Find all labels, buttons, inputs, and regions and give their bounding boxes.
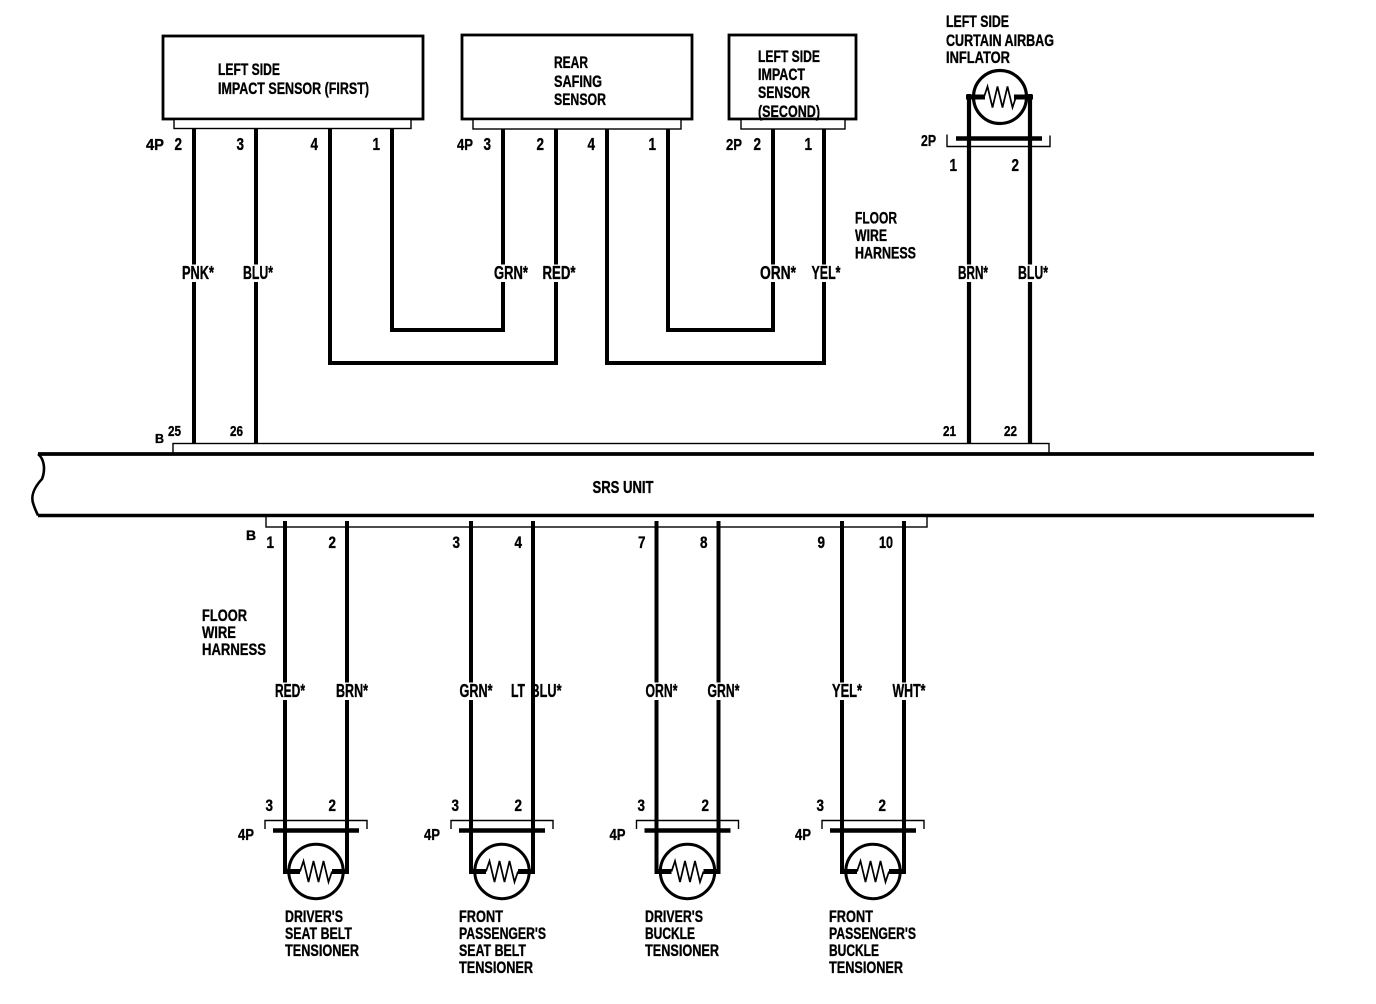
svg-text:3: 3 [453,534,461,552]
svg-text:3: 3 [638,797,646,815]
svg-text:SRS UNIT: SRS UNIT [593,477,654,497]
svg-text:1: 1 [805,134,813,154]
svg-text:YEL*: YEL* [832,681,862,701]
svg-text:B: B [155,432,164,446]
svg-text:PNK*: PNK* [182,263,214,283]
svg-text:TENSIONER: TENSIONER [285,942,359,960]
svg-text:3: 3 [817,797,825,815]
svg-text:TENSIONER: TENSIONER [645,942,719,960]
svg-text:2: 2 [515,797,523,815]
svg-text:SAFING: SAFING [554,73,602,91]
svg-text:INFLATOR: INFLATOR [946,49,1010,67]
svg-text:4P: 4P [238,827,254,844]
svg-text:22: 22 [1004,424,1017,440]
svg-text:BUCKLE: BUCKLE [645,925,695,943]
svg-text:IMPACT: IMPACT [758,66,805,84]
svg-text:LEFT SIDE: LEFT SIDE [946,13,1009,31]
svg-text:2: 2 [329,534,337,552]
svg-text:26: 26 [230,424,243,440]
svg-text:7: 7 [638,534,646,552]
svg-text:2: 2 [879,797,887,815]
svg-text:21: 21 [943,424,956,440]
svg-text:GRN*: GRN* [460,681,493,701]
svg-text:4P: 4P [610,827,626,844]
svg-text:ORN*: ORN* [760,263,796,283]
svg-text:4P: 4P [457,137,473,154]
svg-text:LT: LT [511,681,525,701]
svg-text:SEAT BELT: SEAT BELT [459,942,526,960]
svg-text:2: 2 [175,134,183,154]
svg-text:PASSENGER'S: PASSENGER'S [829,925,916,943]
svg-text:YEL*: YEL* [812,263,841,283]
svg-text:25: 25 [168,424,181,440]
svg-text:2: 2 [1012,155,1020,175]
svg-text:BLU*: BLU* [243,263,273,283]
svg-text:(SECOND): (SECOND) [758,103,820,121]
svg-text:3: 3 [237,134,245,154]
svg-text:2: 2 [329,797,337,815]
svg-text:2: 2 [754,134,762,154]
svg-text:ORN*: ORN* [646,681,678,701]
svg-text:BUCKLE: BUCKLE [829,942,879,960]
svg-text:BRN*: BRN* [336,681,368,701]
svg-text:1: 1 [373,134,381,154]
svg-text:WHT*: WHT* [893,681,926,701]
svg-text:4: 4 [588,134,596,154]
svg-text:1: 1 [950,155,958,175]
svg-text:4P: 4P [146,137,164,154]
svg-text:GRN*: GRN* [494,263,528,283]
svg-text:LEFT SIDE: LEFT SIDE [218,61,280,79]
svg-text:RED*: RED* [543,263,576,283]
svg-text:2P: 2P [726,137,742,154]
svg-text:GRN*: GRN* [708,681,740,701]
svg-text:B: B [246,527,256,543]
svg-text:1: 1 [649,134,657,154]
svg-text:DRIVER'S: DRIVER'S [645,908,703,926]
svg-text:4P: 4P [795,827,811,844]
svg-text:IMPACT SENSOR (FIRST): IMPACT SENSOR (FIRST) [218,80,369,98]
svg-text:SEAT BELT: SEAT BELT [285,925,352,943]
svg-text:9: 9 [818,534,826,552]
svg-text:FRONT: FRONT [459,908,503,926]
svg-text:3: 3 [484,134,492,154]
svg-text:2P: 2P [921,133,936,150]
svg-text:10: 10 [879,534,893,552]
svg-text:LEFT SIDE: LEFT SIDE [758,48,820,66]
svg-text:BLU*: BLU* [1018,263,1048,283]
svg-text:TENSIONER: TENSIONER [829,959,903,977]
svg-text:8: 8 [700,534,708,552]
svg-text:1: 1 [267,534,275,552]
svg-text:3: 3 [266,797,274,815]
svg-text:4: 4 [311,134,319,154]
svg-text:TENSIONER: TENSIONER [459,959,533,977]
svg-text:BLU*: BLU* [531,681,562,701]
svg-text:PASSENGER'S: PASSENGER'S [459,925,546,943]
svg-text:CURTAIN AIRBAG: CURTAIN AIRBAG [946,32,1054,50]
svg-text:DRIVER'S: DRIVER'S [285,908,343,926]
svg-text:FRONT: FRONT [829,908,873,926]
svg-text:3: 3 [452,797,460,815]
svg-text:HARNESS: HARNESS [202,640,266,659]
svg-text:REAR: REAR [554,54,588,72]
svg-text:SENSOR: SENSOR [554,91,606,109]
svg-text:HARNESS: HARNESS [855,244,916,263]
svg-text:WIRE: WIRE [855,226,887,245]
svg-text:RED*: RED* [275,681,305,701]
svg-text:2: 2 [702,797,710,815]
svg-text:FLOOR: FLOOR [855,209,897,228]
svg-text:4: 4 [515,534,523,552]
svg-text:4P: 4P [424,827,440,844]
svg-text:SENSOR: SENSOR [758,84,810,102]
svg-text:BRN*: BRN* [958,263,988,283]
svg-text:2: 2 [537,134,545,154]
